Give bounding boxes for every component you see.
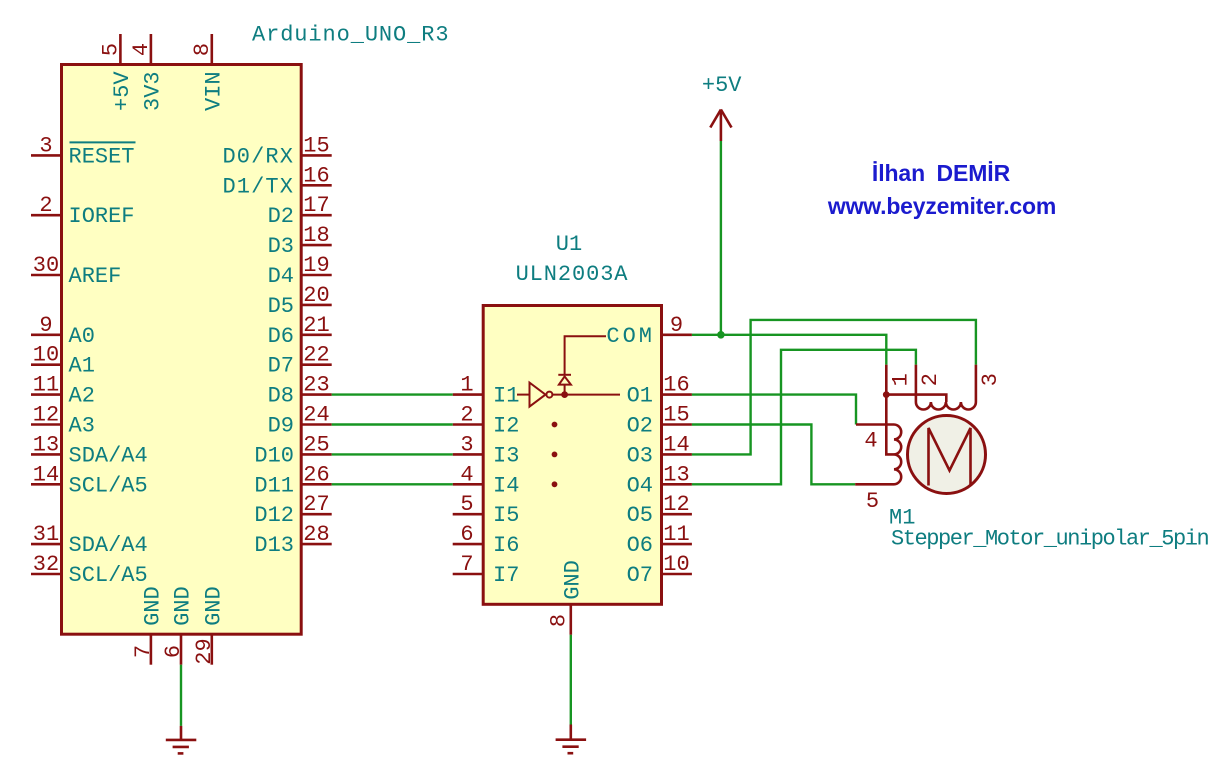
label ULN2003A value	[516, 262, 629, 287]
motor M1 rotor circle	[908, 416, 986, 494]
svg-text:I4: I4	[493, 473, 519, 498]
svg-text:O7: O7	[627, 563, 653, 588]
wire D9 to I2	[332, 423, 453, 425]
pin 18 D3 (Arduino right)	[268, 223, 332, 259]
pin 29 GND (Arduino bottom)	[192, 586, 227, 664]
pin 32 SCL/A5 (Arduino left)	[31, 552, 148, 588]
component Arduino_UNO_R3 body	[62, 65, 302, 635]
svg-text:D11: D11	[254, 473, 294, 498]
text annotation www.beyzemiter.com	[827, 193, 1056, 219]
label Arduino_UNO_R3 value	[252, 23, 449, 48]
svg-text:2: 2	[39, 193, 52, 218]
svg-text:+5V: +5V	[702, 73, 742, 98]
svg-text:D3: D3	[268, 234, 294, 259]
svg-text:I6: I6	[493, 533, 519, 558]
pin 26 D11 (Arduino right)	[254, 462, 331, 498]
svg-text:O1: O1	[627, 384, 653, 409]
pin 14 SCL/A5 (Arduino left)	[31, 462, 148, 498]
svg-text:SCL/A5: SCL/A5	[69, 563, 148, 588]
wire ULN GND pin8 to ground	[570, 635, 572, 725]
pin 7 GND (Arduino bottom)	[131, 586, 166, 664]
svg-text:16: 16	[663, 373, 689, 398]
svg-text:ULN2003A: ULN2003A	[516, 262, 629, 287]
svg-text:O6: O6	[627, 533, 653, 558]
svg-text:I1: I1	[493, 384, 519, 409]
wire O2 (pin15) to motor pin5	[692, 425, 855, 485]
svg-text:9: 9	[670, 313, 683, 338]
svg-text:D8: D8	[268, 384, 294, 409]
svg-text:SCL/A5: SCL/A5	[69, 473, 148, 498]
pin 21 D6 (Arduino right)	[268, 313, 332, 349]
svg-text:D5: D5	[268, 294, 294, 319]
svg-text:24: 24	[303, 403, 329, 428]
svg-text:2: 2	[918, 373, 943, 386]
svg-text:D13: D13	[254, 533, 294, 558]
motor M1 pin 1 (common)	[886, 365, 913, 395]
pin 27 D12 (Arduino right)	[254, 492, 331, 528]
pin 20 D5 (Arduino right)	[268, 283, 332, 319]
pin 14 O3 (U1 right)	[627, 432, 692, 468]
svg-text:5: 5	[866, 489, 879, 514]
svg-text:6: 6	[161, 645, 186, 658]
svg-text:28: 28	[303, 522, 329, 547]
ground symbol (ULN)	[556, 725, 587, 754]
pin 1 I1 (U1 left)	[453, 373, 520, 409]
pin 17 D2 (Arduino right)	[268, 193, 332, 229]
svg-text:RESET: RESET	[69, 144, 135, 169]
motor M1 letter M	[929, 428, 971, 486]
svg-text:D9: D9	[268, 414, 294, 439]
pin 3 I3 (U1 left)	[453, 432, 520, 468]
pin 13 SDA/A4 (Arduino left)	[31, 432, 148, 468]
svg-text:20: 20	[303, 283, 329, 308]
pin 15 O2 (U1 right)	[627, 403, 692, 439]
motor M1 pin 5	[855, 484, 894, 514]
svg-text:22: 22	[303, 343, 329, 368]
pin 7 I7 (U1 left)	[453, 552, 520, 588]
svg-text:3V3: 3V3	[141, 71, 166, 111]
pin 16 O1 (U1 right)	[627, 373, 692, 409]
pin 6 GND (Arduino bottom)	[161, 586, 196, 664]
svg-text:I7: I7	[493, 563, 519, 588]
svg-text:GND: GND	[201, 586, 226, 626]
svg-text:D4: D4	[268, 264, 294, 289]
svg-text:O4: O4	[627, 473, 653, 498]
svg-text:AREF: AREF	[69, 264, 122, 289]
svg-text:5: 5	[98, 43, 123, 56]
pin 8 VIN (Arduino top)	[190, 34, 227, 111]
svg-text:O2: O2	[627, 414, 653, 439]
svg-text:10: 10	[663, 552, 689, 577]
svg-text:3: 3	[460, 432, 473, 457]
wire D11 to I4	[332, 483, 453, 485]
svg-text:GND: GND	[171, 586, 196, 626]
pin 9 A0 (Arduino left)	[31, 313, 95, 349]
svg-text:Arduino_UNO_R3: Arduino_UNO_R3	[252, 23, 449, 48]
pin 19 D4 (Arduino right)	[268, 253, 332, 289]
pin 10 A1 (Arduino left)	[31, 343, 95, 379]
svg-text:3: 3	[978, 373, 1003, 386]
svg-text:26: 26	[303, 462, 329, 487]
svg-text:4: 4	[864, 429, 877, 454]
svg-text:I2: I2	[493, 414, 519, 439]
U1 internal output node junction	[561, 391, 568, 398]
svg-text:29: 29	[192, 638, 217, 664]
wire +5V stem	[720, 141, 722, 335]
U1 internal ellipsis dots	[552, 422, 558, 488]
pin 15 D0/RX (Arduino right)	[222, 133, 331, 169]
power symbol +5V	[702, 73, 742, 141]
svg-text:17: 17	[303, 193, 329, 218]
wire COM (pin9) to motor pin1	[692, 335, 886, 365]
pin 12 O5 (U1 right)	[627, 492, 692, 528]
motor M1 winding A (pins 2-3, horizontal coil)	[916, 402, 976, 410]
pin 6 I6 (U1 left)	[453, 522, 520, 558]
motor M1 common link to winding A center tap	[886, 395, 946, 402]
svg-text:11: 11	[33, 373, 59, 398]
svg-text:D7: D7	[268, 354, 294, 379]
svg-text:16: 16	[303, 163, 329, 188]
motor M1 common link to winding B center tap	[886, 395, 894, 455]
wire Arduino GND pin6 to ground	[180, 665, 182, 726]
svg-text:25: 25	[303, 432, 329, 457]
svg-text:A0: A0	[69, 324, 95, 349]
svg-text:GND: GND	[141, 586, 166, 626]
svg-text:15: 15	[663, 403, 689, 428]
pin 2 I2 (U1 left)	[453, 403, 520, 439]
svg-text:I3: I3	[493, 443, 519, 468]
svg-text:I5: I5	[493, 503, 519, 528]
svg-text:D0/RX: D0/RX	[222, 144, 294, 169]
svg-text:12: 12	[33, 403, 59, 428]
ground symbol (Arduino)	[166, 726, 197, 754]
pin 11 O6 (U1 right)	[627, 522, 692, 558]
svg-text:13: 13	[663, 462, 689, 487]
wire D10 to I3	[332, 453, 453, 455]
motor M1 pin 3	[976, 365, 1003, 402]
svg-text:13: 13	[33, 432, 59, 457]
svg-text:14: 14	[663, 432, 689, 457]
label M1 reference	[889, 505, 915, 530]
label Stepper_Motor_unipolar_5pin value	[891, 527, 1209, 552]
svg-text:SDA/A4: SDA/A4	[69, 533, 148, 558]
svg-text:32: 32	[33, 552, 59, 577]
svg-text:A1: A1	[69, 354, 95, 379]
pin 24 D9 (Arduino right)	[268, 403, 332, 439]
U1 internal buffer/inverter triangle	[517, 383, 620, 407]
svg-text:30: 30	[33, 253, 59, 278]
svg-text:D10: D10	[254, 443, 294, 468]
junction +5V/COM node	[717, 331, 725, 339]
pin 16 D1/TX (Arduino right)	[222, 163, 331, 199]
pin 22 D7 (Arduino right)	[268, 343, 332, 379]
svg-text:2: 2	[460, 403, 473, 428]
svg-text:Stepper_Motor_unipolar_5pin: Stepper_Motor_unipolar_5pin	[891, 527, 1209, 552]
motor M1 pin 2	[916, 365, 943, 402]
svg-text:IOREF: IOREF	[69, 204, 135, 229]
svg-text:GND: GND	[560, 560, 585, 600]
svg-text:SDA/A4: SDA/A4	[69, 443, 148, 468]
pin 4 3V3 (Arduino top)	[129, 34, 166, 111]
svg-text:9: 9	[39, 313, 52, 338]
svg-text:7: 7	[460, 552, 473, 577]
svg-text:A2: A2	[69, 384, 95, 409]
svg-text:11: 11	[663, 522, 689, 547]
label U1 reference	[556, 232, 582, 257]
svg-text:27: 27	[303, 492, 329, 517]
svg-text:İlhan DEMİR: İlhan DEMİR	[872, 160, 1011, 186]
pin 9 COM (U1 right)	[606, 313, 692, 349]
svg-text:7: 7	[131, 645, 156, 658]
U1 internal clamp diode to COM	[558, 336, 606, 394]
svg-text:A3: A3	[69, 414, 95, 439]
svg-text:O5: O5	[627, 503, 653, 528]
svg-text:8: 8	[190, 43, 215, 56]
pin 25 D10 (Arduino right)	[254, 432, 331, 468]
svg-text:15: 15	[303, 133, 329, 158]
pin 31 SDA/A4 (Arduino left)	[31, 522, 148, 558]
svg-text:1: 1	[888, 373, 913, 386]
svg-text:8: 8	[547, 614, 572, 627]
svg-text:14: 14	[33, 462, 59, 487]
pin 5 +5V (Arduino top)	[98, 34, 135, 111]
pin 4 I4 (U1 left)	[453, 462, 520, 498]
pin 2 IOREF (Arduino left)	[31, 193, 135, 229]
svg-text:31: 31	[33, 522, 59, 547]
svg-text:www.beyzemiter.com: www.beyzemiter.com	[827, 193, 1056, 219]
pin 3 RESET (Arduino left)	[31, 133, 136, 169]
svg-text:D1/TX: D1/TX	[222, 174, 294, 199]
wire D8 to I1	[332, 393, 453, 395]
pin 10 O7 (U1 right)	[627, 552, 692, 588]
svg-text:D6: D6	[268, 324, 294, 349]
svg-text:4: 4	[460, 462, 473, 487]
motor M1 winding B (pins 4-5, vertical coil)	[894, 425, 901, 485]
svg-text:10: 10	[33, 343, 59, 368]
component U1 ULN2003A body	[483, 306, 661, 605]
svg-text:18: 18	[303, 223, 329, 248]
svg-text:D12: D12	[254, 503, 294, 528]
wire O3 (pin14) to motor pin3	[692, 320, 976, 455]
pin 11 A2 (Arduino left)	[31, 373, 95, 409]
motor M1 pin1 junction dot	[883, 391, 890, 398]
pin 12 A3 (Arduino left)	[31, 403, 95, 439]
svg-text:+5V: +5V	[110, 71, 135, 111]
motor M1 pin 4	[856, 425, 894, 454]
svg-text:19: 19	[303, 253, 329, 278]
svg-text:4: 4	[129, 43, 154, 56]
svg-text:23: 23	[303, 373, 329, 398]
pin 13 O4 (U1 right)	[627, 462, 692, 498]
svg-text:6: 6	[460, 522, 473, 547]
pin 5 I5 (U1 left)	[453, 492, 520, 528]
pin 28 D13 (Arduino right)	[254, 522, 331, 558]
wire O1 (pin16) to motor pin4	[692, 395, 856, 425]
svg-text:1: 1	[460, 373, 473, 398]
text annotation Ilhan DEMIR	[872, 160, 1011, 186]
svg-text:D2: D2	[268, 204, 294, 229]
pin 8 GND (U1 bottom)	[547, 560, 586, 635]
svg-text:O3: O3	[627, 443, 653, 468]
pin 23 D8 (Arduino right)	[268, 373, 332, 409]
svg-text:U1: U1	[556, 232, 582, 257]
svg-text:12: 12	[663, 492, 689, 517]
svg-text:5: 5	[460, 492, 473, 517]
svg-text:3: 3	[39, 133, 52, 158]
pin 30 AREF (Arduino left)	[31, 253, 121, 289]
wire O4 (pin13) to motor pin2	[692, 350, 916, 485]
svg-text:21: 21	[303, 313, 329, 338]
svg-text:VIN: VIN	[201, 71, 226, 111]
svg-text:COM: COM	[606, 324, 655, 349]
